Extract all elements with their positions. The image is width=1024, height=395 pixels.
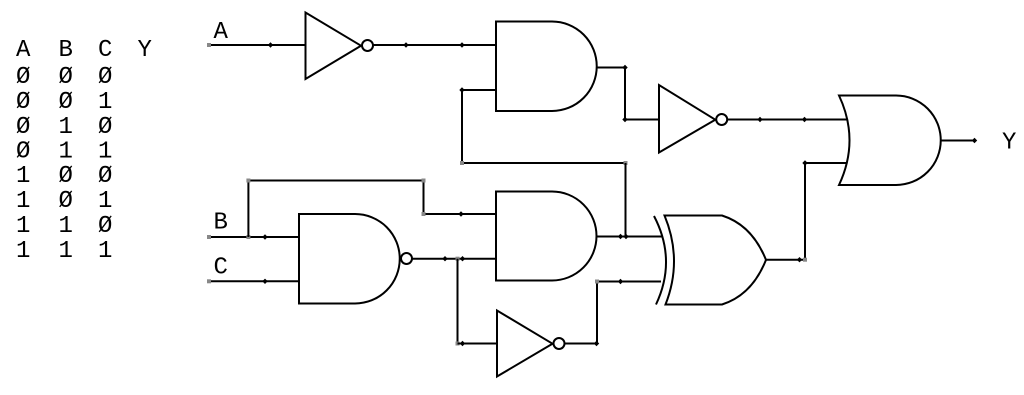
node on wire C [262, 279, 267, 284]
truth table [16, 37, 152, 265]
wire feedback horizontal [462, 162, 626, 164]
grey T marker [456, 257, 460, 261]
node [802, 117, 807, 122]
svg-text:Ø: Ø [98, 114, 112, 141]
grey endpoint B start [207, 235, 211, 239]
node on wire A [268, 42, 273, 47]
svg-text:1: 1 [59, 114, 73, 141]
grey corner [422, 212, 426, 216]
wire input B [209, 236, 299, 238]
node [459, 42, 464, 47]
svg-text:1: 1 [59, 139, 73, 166]
svg-text:Ø: Ø [98, 64, 112, 91]
grey corner [595, 280, 599, 284]
svg-text:Ø: Ø [59, 89, 73, 116]
grey corner [624, 161, 628, 165]
node [618, 234, 623, 239]
svg-text:B: B [59, 37, 73, 64]
svg-text:1: 1 [98, 139, 112, 166]
node [442, 256, 447, 261]
svg-text:1: 1 [59, 238, 73, 265]
wire NAND output to AND2 [412, 258, 496, 260]
wire NOT2 output to OR [728, 119, 848, 121]
NAND gate U4 [299, 214, 400, 304]
svg-text:Ø: Ø [98, 213, 112, 240]
grey endpoint C start [207, 279, 211, 283]
grey corner [422, 179, 426, 183]
wire AND1 output [597, 68, 660, 120]
svg-text:Ø: Ø [16, 89, 30, 116]
wire XOR output to OR [767, 163, 848, 260]
svg-text:Ø: Ø [59, 188, 73, 215]
wire NOT1 output to AND1 [373, 44, 496, 46]
node [797, 257, 802, 262]
AND gate U5 (middle) [496, 192, 597, 281]
node [403, 42, 408, 47]
wire NAND down to NOT3 [457, 259, 459, 344]
node end Y [972, 138, 977, 143]
wire AND1 second input [462, 89, 496, 91]
node [623, 234, 628, 239]
svg-text:1: 1 [16, 163, 30, 190]
grey branch marker [246, 235, 250, 239]
grey corner [456, 342, 460, 346]
svg-text:Ø: Ø [59, 64, 73, 91]
svg-text:1: 1 [98, 188, 112, 215]
wire NOT3 output up to XOR [565, 282, 661, 344]
node [622, 117, 627, 122]
grey corner [246, 179, 250, 183]
grey corner [460, 161, 464, 165]
svg-text:Ø: Ø [98, 163, 112, 190]
svg-text:A: A [214, 19, 229, 46]
node [757, 117, 762, 122]
grey endpoint A start [207, 43, 211, 47]
node [618, 279, 623, 284]
wire AND2 output to XOR [597, 236, 663, 238]
wire NOT3 input [458, 343, 498, 345]
XOR gate U7 [665, 216, 767, 305]
inverter U6 (bottom) [497, 311, 553, 377]
grey corner [803, 258, 807, 262]
XOR extra input arc [654, 216, 666, 305]
svg-text:1: 1 [98, 89, 112, 116]
node [460, 341, 465, 346]
svg-text:1: 1 [16, 238, 30, 265]
svg-text:C: C [98, 37, 112, 64]
node [459, 87, 464, 92]
svg-text:B: B [214, 210, 228, 237]
svg-text:Ø: Ø [16, 114, 30, 141]
AND gate U2 (top) [496, 22, 597, 112]
svg-text:Y: Y [138, 37, 152, 64]
wire B branch to AND2 [248, 181, 496, 238]
node [594, 341, 599, 346]
wire input A [209, 44, 305, 46]
node [460, 256, 465, 261]
OR gate U8 [839, 96, 941, 186]
wire input C [209, 280, 299, 282]
node on wire B [262, 234, 267, 239]
svg-text:Ø: Ø [16, 64, 30, 91]
wire OR output Y [941, 140, 975, 142]
wire feedback vertical left [461, 90, 463, 163]
svg-text:A: A [16, 37, 31, 64]
wire feedback vertical right [625, 163, 627, 237]
node [622, 65, 627, 70]
svg-text:1: 1 [59, 213, 73, 240]
inverter U1 (NOT on A) [306, 13, 362, 80]
svg-text:C: C [214, 255, 228, 282]
node [458, 211, 463, 216]
inverter U3 (top right) [659, 85, 715, 153]
svg-text:Ø: Ø [16, 139, 30, 166]
svg-text:1: 1 [16, 213, 30, 240]
svg-text:1: 1 [16, 188, 30, 215]
node at corner [802, 160, 807, 165]
svg-text:Ø: Ø [59, 163, 73, 190]
svg-text:Y: Y [1002, 130, 1016, 157]
svg-text:1: 1 [98, 238, 112, 265]
